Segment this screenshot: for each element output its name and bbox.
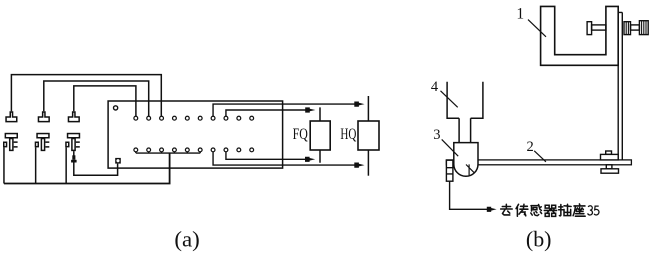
svg-text:FQ: FQ [293, 126, 309, 143]
svg-text:4: 4 [431, 79, 439, 95]
svg-text:1: 1 [516, 6, 524, 23]
svg-text:2: 2 [527, 139, 534, 155]
svg-text:(a): (a) [174, 226, 199, 251]
svg-text:(b): (b) [526, 226, 552, 251]
svg-text:3: 3 [433, 127, 440, 143]
svg-text:HQ: HQ [340, 126, 356, 143]
